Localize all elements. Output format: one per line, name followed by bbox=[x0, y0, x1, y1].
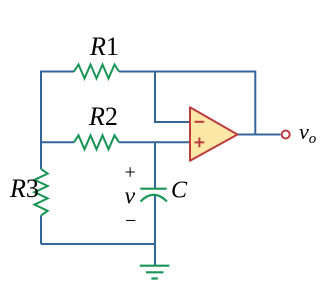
svg-text:R1: R1 bbox=[89, 32, 119, 61]
svg-text:v: v bbox=[125, 184, 136, 210]
svg-text:+: + bbox=[125, 162, 136, 184]
resistor R2 bbox=[74, 135, 119, 149]
svg-text:vo: vo bbox=[299, 119, 317, 147]
resistor R3 bbox=[35, 169, 48, 216]
svg-text:−: − bbox=[125, 210, 136, 232]
svg-text:R3: R3 bbox=[9, 174, 39, 203]
wire: R2 right lead to op-amp non-inverting (+) input bbox=[119, 141, 190, 143]
resistor R1 bbox=[74, 65, 119, 79]
output terminal circle bbox=[282, 131, 290, 139]
wire: left vertical top segment (node A column) bbox=[40, 72, 42, 170]
wire: horizontal into op-amp inverting (-) input bbox=[154, 121, 190, 123]
wire: top horizontal right of R1 to top-right corner bbox=[119, 71, 255, 73]
ground bbox=[140, 266, 170, 279]
wire: vertical from top wire down to inverting input corner bbox=[154, 72, 156, 123]
wire: capacitor top lead from + input line bbox=[154, 142, 156, 188]
wire: capacitor bottom lead down to ground bbox=[154, 195, 156, 265]
wire: top horizontal left lead to R1 bbox=[40, 71, 74, 73]
wire: left vertical bottom segment below R3 bbox=[40, 216, 42, 245]
wire: R2 left lead from left column bbox=[40, 141, 74, 143]
svg-text:C: C bbox=[171, 178, 188, 204]
op-amp - input symbol bbox=[195, 121, 205, 123]
capacitor C top plate bbox=[140, 188, 166, 190]
capacitor C curved plate bbox=[141, 195, 167, 202]
op-amp U1 bbox=[190, 107, 238, 160]
wire: op-amp output to terminal bbox=[237, 134, 281, 136]
svg-text:R2: R2 bbox=[88, 102, 118, 131]
op-amp + input symbol bbox=[195, 138, 205, 148]
wire: feedback vertical from top-right corner down to output node bbox=[254, 71, 256, 135]
wire: bottom horizontal from left column to ground node bbox=[41, 243, 156, 245]
